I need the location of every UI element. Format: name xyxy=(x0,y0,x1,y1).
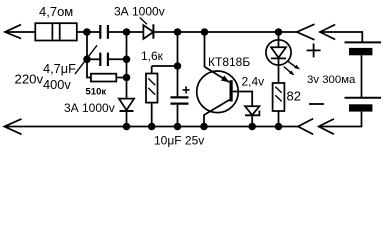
svg-text:КТ818Б: КТ818Б xyxy=(208,55,250,69)
svg-text:510к: 510к xyxy=(86,86,107,97)
svg-text:220v: 220v xyxy=(15,71,44,86)
svg-text:3v 300ма: 3v 300ма xyxy=(307,74,356,86)
svg-text:3А 1000v: 3А 1000v xyxy=(64,101,115,115)
svg-text:2,4v: 2,4v xyxy=(242,75,265,89)
svg-text:82: 82 xyxy=(287,89,301,104)
svg-text:400v: 400v xyxy=(43,77,71,92)
svg-text:3А 1000v: 3А 1000v xyxy=(114,5,165,19)
svg-text:1,6к: 1,6к xyxy=(141,49,164,63)
svg-text:10μF 25v: 10μF 25v xyxy=(154,133,204,147)
svg-text:4,7ом: 4,7ом xyxy=(39,4,73,19)
svg-text:4,7μF: 4,7μF xyxy=(43,61,76,76)
